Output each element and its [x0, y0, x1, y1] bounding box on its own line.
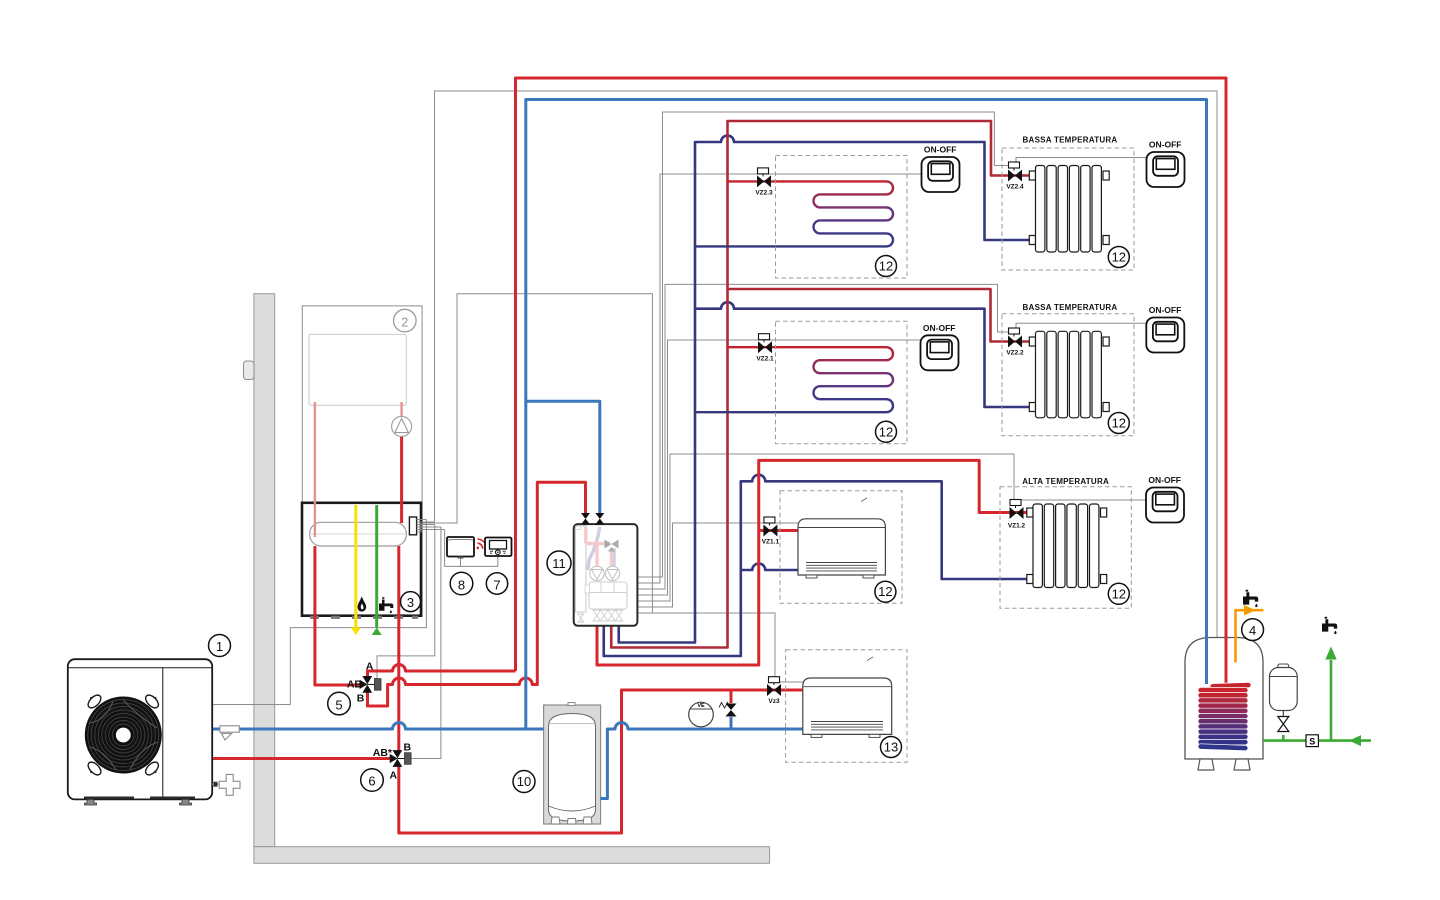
pipe alta supply riser and zone3 radiator feed: [597, 460, 1033, 665]
svg-text:ON-OFF: ON-OFF: [1149, 305, 1182, 315]
device 7 thermostat: [485, 538, 512, 557]
pipe unit2 pump to drum: [400, 436, 403, 523]
label circle 12 zone3 fan coil: [875, 581, 896, 602]
valve 5 three-way: [360, 676, 381, 693]
wire bus zone2 floor circuit: [639, 340, 921, 595]
wire bus zone2 radiator: [639, 284, 1010, 589]
pipe valve5 port B line to module 11: [368, 482, 586, 706]
svg-text:13: 13: [884, 740, 898, 755]
S safety group box: [1306, 735, 1318, 747]
pipe boiler left line to valve5: [315, 546, 361, 685]
dashed box zone1 radiator: [1002, 148, 1134, 270]
buffer tank inner vessel: [549, 714, 596, 822]
svg-text:A: A: [390, 770, 398, 782]
pipe heat pump return main: [212, 723, 544, 730]
DHW tank 4 body: [1185, 638, 1263, 760]
pipe alta fan coil return branch: [741, 564, 798, 570]
svg-text:VZ2.4: VZ2.4: [1006, 184, 1024, 191]
module 11: [574, 513, 638, 626]
label circle 12 zone1 radiator: [1108, 247, 1129, 268]
unit2 pump: [392, 416, 412, 436]
valve VZ2.3: [757, 168, 771, 188]
svg-text:AB: AB: [347, 679, 363, 691]
boiler feet: [310, 616, 418, 619]
thermostat zone3: [1146, 488, 1184, 523]
radiator zone2: [1029, 331, 1109, 418]
vessel valve stub: [1282, 735, 1285, 741]
svg-text:B: B: [404, 742, 412, 754]
label circle 2: [394, 309, 417, 332]
valve VZ1.2: [1010, 500, 1024, 520]
thermostat zone1 floor: [922, 157, 960, 192]
svg-text:3: 3: [407, 595, 414, 610]
differential bypass valve: [719, 703, 737, 717]
GRAY STRUCTURE: [213, 91, 1217, 863]
connector wire fan: [417, 517, 445, 532]
pipe valve6 port A loop to fan coil 13: [399, 690, 803, 833]
DHW tank feet: [1198, 759, 1214, 770]
gas line yellow: [351, 505, 361, 635]
heat pump 1 body: [68, 659, 212, 805]
wall: [254, 294, 275, 847]
thermostat zone2 radiator: [1146, 318, 1184, 353]
svg-text:6: 6: [368, 774, 375, 789]
svg-text:12: 12: [879, 424, 893, 439]
dashed box zone3 radiator: [1000, 487, 1131, 609]
pipe bypass branch: [730, 690, 733, 703]
label circle 6: [361, 769, 384, 792]
unit 2 cabinet outline: [302, 306, 422, 617]
orange arrow: [1244, 605, 1256, 616]
label circle 4: [1242, 619, 1264, 641]
label circle 5: [328, 692, 351, 715]
buffer tank top nub: [568, 703, 575, 706]
svg-text:BASSA TEMPERATURA: BASSA TEMPERATURA: [1023, 303, 1118, 312]
svg-text:BASSA TEMPERATURA: BASSA TEMPERATURA: [1023, 136, 1118, 145]
label circle 13: [881, 737, 902, 758]
wire module to Vz3 and fan coil 13: [639, 613, 776, 680]
pipe bassa supply riser and zone1 radiator feed: [611, 121, 1035, 648]
PIPES: [212, 78, 1371, 833]
svg-text:2: 2: [401, 314, 408, 329]
DHW outlet orange line: [1236, 610, 1264, 662]
svg-text:ON-OFF: ON-OFF: [1149, 140, 1182, 150]
dashed box zone1 floor: [776, 156, 908, 279]
svg-text:ON-OFF: ON-OFF: [923, 323, 956, 333]
fan coil unit zone3: [798, 498, 885, 578]
wire bus zone1 radiator: [639, 112, 1010, 577]
heat pump feet: [85, 799, 97, 805]
label circle 12 zone3 radiator: [1108, 583, 1129, 604]
pipe DHW loading top loop: [516, 78, 1227, 686]
fan coil unit 13: [803, 657, 892, 737]
wire devices 7 8 to boiler: [445, 530, 498, 567]
svg-text:12: 12: [1112, 586, 1126, 601]
buffer tank 10 shell: [544, 705, 601, 824]
DHW tank coil: [1198, 682, 1251, 751]
pipe bassa return riser and zone1 radiator return: [619, 136, 1036, 643]
floor slab: [254, 847, 770, 864]
wire heat pump to boiler: [213, 520, 427, 705]
svg-text:VZ2.1: VZ2.1: [756, 355, 774, 362]
module interior: [576, 526, 628, 622]
wire bus zone3 radiator: [639, 454, 1015, 601]
wire zone3 radiator to thermostat: [1020, 500, 1146, 506]
dashed box zone3 fan coil: [780, 491, 902, 604]
label circle 12 zone2 radiator: [1108, 413, 1129, 434]
serpentine coil zone1: [695, 181, 893, 246]
valve VZ2.4: [1008, 162, 1022, 182]
ZONE VALVES: [757, 162, 1024, 696]
pipe buffer tank to fan coil 13: [601, 723, 803, 799]
heat pump drain fitting: [212, 774, 240, 795]
svg-text:12: 12: [1112, 250, 1126, 265]
top control bus wire (boiler to DHW sensor): [435, 91, 1218, 638]
svg-text:A: A: [366, 661, 374, 673]
svg-text:AB*: AB*: [373, 747, 393, 759]
pipe heat pump supply to valve6: [212, 757, 391, 760]
svg-text:B: B: [357, 693, 365, 705]
boiler-module control trunk: [421, 294, 652, 613]
UNDER-COMPONENTS (white bodies drawn before pipes): [302, 503, 1263, 824]
label circle 12 zone1 floor: [876, 256, 897, 277]
pipe blue riser to DHW tank: [526, 100, 1207, 730]
wire valve6 to boiler: [411, 527, 441, 759]
expansion vessel VE on blue line: [689, 702, 714, 727]
pipe zone2 floor coil feed: [728, 346, 785, 348]
unit 2 inner panel: [309, 334, 406, 405]
label circle 7: [486, 573, 507, 594]
svg-text:VZ2.2: VZ2.2: [1006, 350, 1024, 357]
wire Vz3 to fan coil 13: [778, 681, 803, 683]
svg-text:11: 11: [552, 556, 566, 571]
svg-text:VZ1.1: VZ1.1: [762, 539, 780, 546]
svg-text:VZ2.3: VZ2.3: [755, 190, 773, 197]
wire zone1 radiator to thermostat: [1016, 158, 1147, 166]
pipe unit2 left internal: [314, 402, 316, 537]
pipe blue branch to module 11: [526, 401, 600, 513]
pipe boiler supply down to valve6: [397, 546, 400, 752]
pipe zone2 radiator feed branch: [728, 289, 1037, 342]
valve VZ2.1: [758, 334, 772, 354]
green arrows: [1349, 735, 1361, 746]
svg-text:12: 12: [1112, 416, 1126, 431]
boiler tap icon: [379, 597, 393, 613]
thermostat zone2 floor: [921, 335, 959, 370]
pipe alta fan coil feed branch: [759, 529, 798, 532]
svg-text:ON-OFF: ON-OFF: [1148, 475, 1181, 485]
valve VZ1.1: [763, 517, 777, 537]
tap icon cold water: [1322, 617, 1337, 634]
wire bus zone1 floor circuit: [639, 174, 922, 583]
heat pump fan: [85, 697, 162, 774]
wire device 8 drop: [460, 557, 462, 567]
svg-text:8: 8: [458, 577, 465, 592]
svg-text:S: S: [1309, 736, 1315, 746]
svg-text:Vz3: Vz3: [768, 698, 780, 705]
radiator zone3: [1027, 504, 1107, 588]
wire zone2 radiator to thermostat: [1016, 323, 1146, 332]
wall-mounted sensor box: [244, 361, 255, 380]
wifi icon: [477, 539, 487, 549]
wire bus zone3 fan coil: [639, 523, 799, 607]
thermostat zone1 radiator: [1147, 152, 1185, 187]
dashed box zone2 radiator: [1002, 314, 1134, 436]
svg-text:7: 7: [493, 577, 500, 592]
svg-text:1: 1: [216, 639, 223, 654]
radiator zone1: [1029, 166, 1109, 253]
boiler flame icon: [358, 597, 367, 612]
THERMOSTATS: [921, 152, 1185, 523]
label circle 12 zone2 floor: [876, 421, 897, 442]
serpentine coil zone2: [695, 347, 893, 412]
pipe unit2 pump feed: [400, 402, 402, 417]
valve Vz3: [767, 677, 781, 696]
buffer tank legs: [551, 817, 592, 824]
svg-text:VE: VE: [697, 703, 705, 709]
boiler heat exchanger drum: [310, 522, 407, 546]
boiler 3 body: [302, 503, 421, 616]
heat pump air separator on blue line: [220, 726, 240, 740]
svg-text:12: 12: [878, 584, 892, 599]
dashed box fan coil 13: [786, 650, 907, 763]
label circle 11: [547, 551, 571, 575]
green riser to tap: [1330, 660, 1333, 741]
svg-text:ALTA TEMPERATURA: ALTA TEMPERATURA: [1022, 477, 1109, 486]
label circle 3: [401, 592, 421, 612]
svg-text:4: 4: [1249, 623, 1256, 638]
pipe zone2 radiator return branch: [695, 302, 1036, 407]
svg-text:VZ1.2: VZ1.2: [1008, 523, 1026, 530]
pipe bypass bottom stub: [730, 717, 733, 729]
valve VZ2.2: [1008, 328, 1022, 348]
pipe valve5 port A line: [368, 665, 516, 679]
device 8 remote display: [447, 537, 474, 559]
pipe zone1 floor coil feed: [728, 180, 785, 182]
label circle 1: [209, 635, 231, 657]
DHW cold water green line: [1263, 660, 1371, 741]
heat pump fan mounting ears: [86, 693, 161, 777]
svg-text:ON-OFF: ON-OFF: [924, 145, 957, 155]
module top valves: [581, 513, 590, 525]
water line green boiler: [372, 505, 382, 635]
boiler flue connector: [409, 517, 416, 535]
dashed box zone2 floor: [776, 321, 908, 444]
pipe alta return riser and zone3 radiator return: [604, 475, 1033, 656]
svg-text:10: 10: [517, 774, 531, 789]
wire valve5 to boiler: [377, 525, 435, 679]
DASHED BOXES: [776, 148, 1135, 762]
valve 6 three-way: [390, 750, 411, 767]
tap icon DHW outlet: [1243, 590, 1258, 607]
svg-text:12: 12: [879, 259, 893, 274]
label circle 8: [450, 572, 473, 595]
svg-text:5: 5: [335, 697, 342, 712]
DHW expansion vessel: [1270, 664, 1298, 732]
label circle 10: [513, 771, 535, 793]
